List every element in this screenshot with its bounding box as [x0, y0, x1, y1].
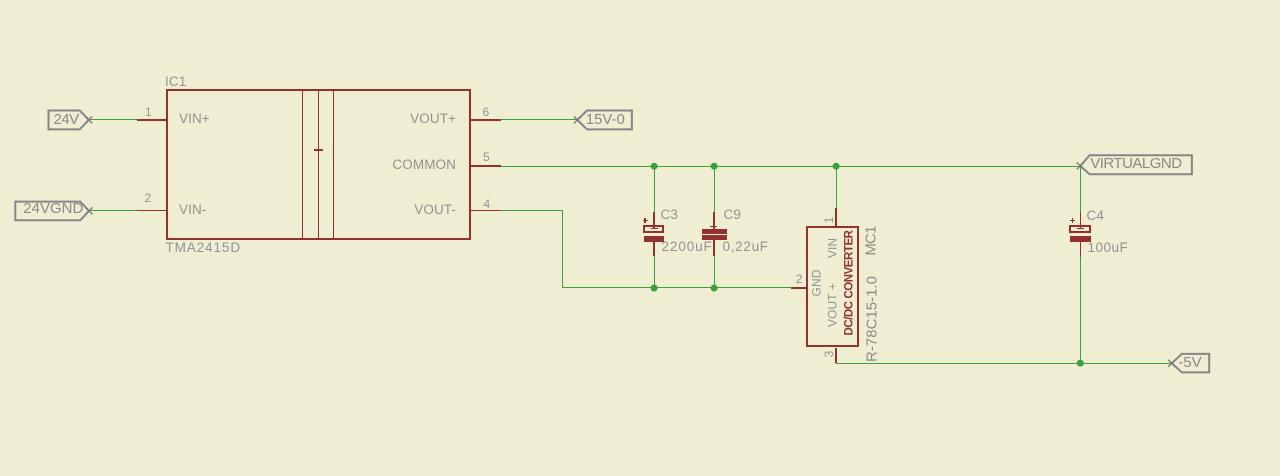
capacitor C4 value: [1088, 241, 1129, 255]
MC1 pin 1 stub: [835, 208, 837, 226]
junction dot GND-C3: [651, 285, 658, 292]
capacitor C4 top plate: [1069, 225, 1091, 233]
junction dot COMMON-MC1: [833, 163, 840, 170]
MC1 refdes: [864, 226, 879, 255]
capacitor C4 refdes: [1087, 209, 1104, 223]
wire COMMON net horizontal: [501, 166, 1081, 167]
wire pin4 vertical: [562, 210, 563, 288]
wire 24VGND to pin2: [89, 210, 137, 211]
IC1 pin 1 stub: [137, 119, 166, 121]
label VIRTUALGND tip cross: [1077, 162, 1084, 169]
IC1 refdes text: [165, 75, 186, 89]
MC1 symbol text DC/DC CONVERTER: [844, 230, 856, 335]
capacitor C9 lead tick: [710, 226, 717, 227]
label 24VGND tip cross: [86, 207, 93, 214]
wire 24V to pin1: [89, 119, 137, 120]
label 24VGND flag: [15, 202, 89, 221]
label VIRTUALGND text: [1090, 156, 1181, 171]
MC1 pin 3 stub: [835, 348, 837, 364]
IC1 pin name VIN+: [179, 112, 210, 126]
IC1 pin name VIN-: [179, 203, 206, 217]
capacitor C9 top plate: [702, 229, 727, 234]
junction dot -5V-C4: [1077, 360, 1084, 367]
capacitor C4 lead tick: [1077, 228, 1084, 229]
MC1 pin name VOUT +: [827, 283, 841, 327]
label -5V text: [1178, 355, 1201, 370]
IC1 pin 5 stub: [471, 165, 501, 167]
IC1 value text TMA2415D: [166, 241, 241, 255]
MC1 pin 2 number: [796, 273, 803, 285]
capacitor C4 bottom lead: [1080, 242, 1082, 257]
MC1 pin name GND: [811, 269, 825, 296]
IC1 pin name VOUT-: [356, 203, 456, 217]
label -5V tip cross: [1168, 360, 1175, 367]
IC1 isolation line left: [302, 89, 304, 240]
capacitor C9 value: [723, 240, 769, 254]
IC1 pin 1 number: [145, 106, 152, 118]
IC1 isolation line middle: [318, 89, 320, 240]
IC1 pin 2 number: [145, 192, 152, 204]
IC1 pin name COMMON: [356, 158, 456, 172]
IC1 pin 4 number: [484, 198, 491, 210]
wire -5V rail horizontal: [836, 363, 1172, 364]
capacitor C3 top lead: [653, 212, 655, 229]
capacitor C4 plus sign: [1070, 220, 1075, 221]
capacitor C9 refdes: [724, 208, 741, 222]
wire pin4 horizontal: [501, 210, 563, 211]
MC1 pin 3 number: [823, 351, 835, 358]
label -5V flag: [1172, 354, 1210, 373]
wire C3 top: [654, 165, 655, 212]
wire C9 top: [714, 165, 715, 212]
capacitor C3 top plate: [643, 225, 665, 233]
capacitor C9 bottom lead: [713, 240, 715, 256]
MC1 pin 1 number: [823, 217, 835, 224]
MC1 pin name VIN: [827, 238, 841, 258]
label VIRTUALGND flag: [1080, 155, 1192, 174]
label 24V tip cross: [85, 116, 92, 123]
label 15V-0 tip cross: [574, 116, 581, 123]
label 24VGND text: [23, 201, 83, 216]
capacitor C4 top lead: [1080, 212, 1082, 229]
capacitor C3 lead tick: [651, 228, 658, 229]
IC1 pin 6 stub: [471, 119, 501, 121]
wire C3 bottom: [654, 256, 655, 288]
IC1 pin 4 stub: [471, 210, 501, 212]
capacitor C3 bottom lead: [653, 242, 655, 256]
capacitor C9 bottom plate: [702, 235, 727, 239]
wire pin6 to 15V-0: [501, 119, 578, 120]
wire C4 top: [1080, 165, 1081, 212]
junction dot COMMON-C3: [651, 163, 658, 170]
capacitor C9 top lead: [713, 212, 715, 229]
IC1 pin 5 number: [483, 151, 490, 163]
IC1 pin name VOUT+: [356, 112, 456, 126]
label 24V text: [54, 112, 79, 127]
capacitor C3 plus sign: [643, 220, 648, 221]
MC1 converter box: [806, 226, 859, 347]
wire C9 bottom: [714, 256, 715, 288]
IC1 isolation tick: [314, 149, 324, 151]
capacitor C3 refdes: [661, 208, 678, 222]
capacitor C3 bottom plate: [644, 236, 665, 243]
wire MC1 VIN drop: [836, 165, 837, 208]
junction dot COMMON-C9: [711, 163, 718, 170]
label 15V-0 flag: [577, 111, 632, 130]
label 24V flag: [49, 111, 89, 130]
IC1 box: [166, 89, 471, 240]
wire gnd rail horizontal: [562, 287, 791, 288]
MC1 value R-78C15-1.0: [865, 276, 880, 362]
capacitor C3 value: [662, 240, 713, 254]
IC1 pin 2 stub: [137, 210, 166, 212]
junction dot GND-C9: [711, 285, 718, 292]
IC1 pin 6 number: [483, 106, 490, 118]
MC1 pin 2 stub: [791, 287, 807, 289]
label 15V-0 text: [586, 112, 625, 127]
wire C4 bottom: [1080, 256, 1081, 363]
capacitor C4 bottom plate: [1070, 236, 1091, 243]
IC1 isolation line right: [333, 89, 335, 240]
